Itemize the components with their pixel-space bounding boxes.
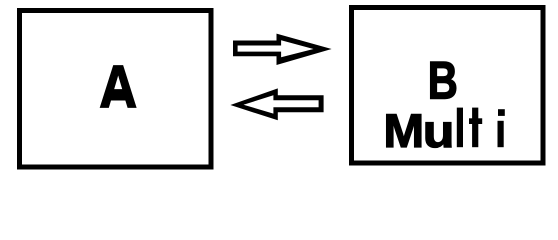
svg-text:M: M bbox=[383, 105, 424, 157]
svg-text:A: A bbox=[100, 53, 137, 120]
label Multi bbox=[383, 105, 504, 157]
svg-text:B: B bbox=[428, 51, 458, 110]
arrow right (A to B) bbox=[233, 34, 332, 65]
arrow left (B to A) bbox=[230, 88, 323, 120]
label A bbox=[100, 53, 137, 120]
box A bbox=[20, 11, 212, 168]
svg-text:u: u bbox=[423, 105, 455, 157]
box B bbox=[352, 8, 544, 164]
